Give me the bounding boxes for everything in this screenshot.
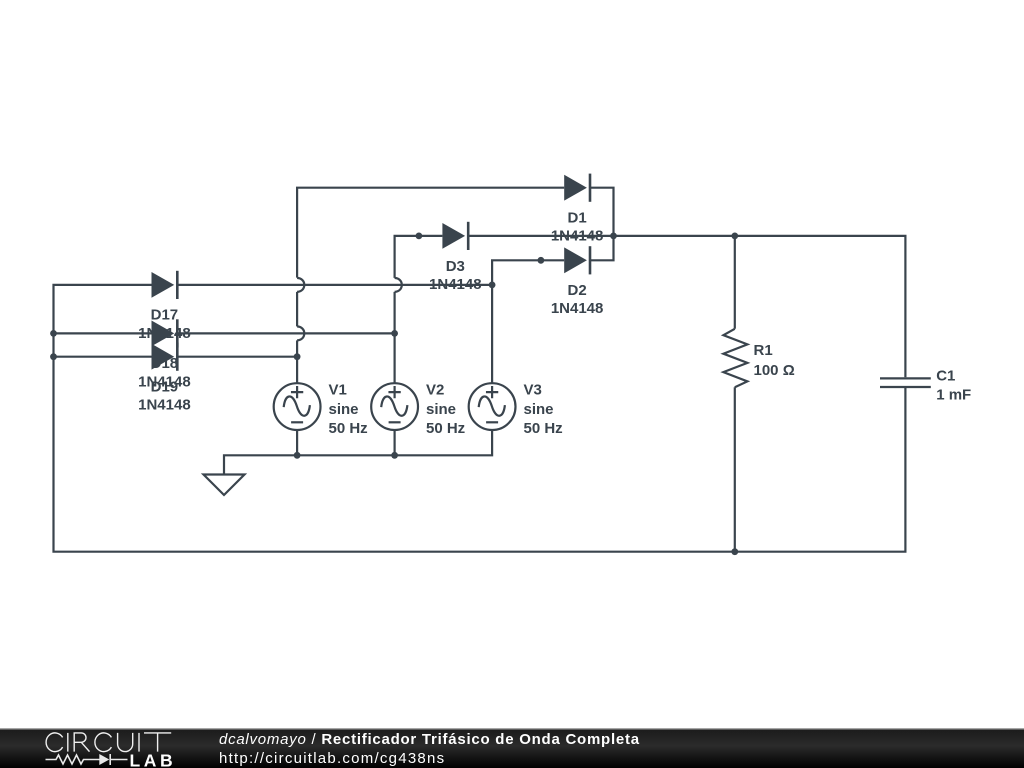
capacitor C1 xyxy=(880,378,931,387)
wire: D1 cathode to output node corner xyxy=(590,188,614,236)
svg-text:50 Hz: 50 Hz xyxy=(329,420,368,437)
logo letter U xyxy=(118,733,133,752)
wire: hop of V2 riser over wire1 xyxy=(395,278,402,292)
logo letter I xyxy=(67,733,69,752)
wire: V1 riser top + top wire to D1 anode xyxy=(297,188,564,278)
svg-text:sine: sine xyxy=(524,401,554,418)
svg-text:D19: D19 xyxy=(151,378,179,395)
svg-text:V2: V2 xyxy=(426,381,444,398)
wire: V1 riser lower segment to V1 top xyxy=(296,340,298,383)
svg-text:1 mF: 1 mF xyxy=(936,387,971,404)
diode D18 xyxy=(152,319,178,347)
wire: hop of V1 riser over wire1 xyxy=(297,278,304,292)
CircuitLab logo xyxy=(0,728,200,768)
wire: wire3 left bus to D19 anode xyxy=(54,356,152,358)
svg-text:1N4148: 1N4148 xyxy=(429,276,482,293)
wire: V2 riser lower segment to V2 top xyxy=(394,292,396,384)
source V3 xyxy=(469,383,516,430)
wire: wire1 from D17 cathode to V3 riser xyxy=(177,284,492,286)
svg-text:1N4148: 1N4148 xyxy=(138,397,191,414)
logo letter R xyxy=(74,733,89,752)
svg-text:1N4148: 1N4148 xyxy=(138,325,191,342)
wire: R1 top lead xyxy=(734,236,736,329)
wire: ground rail from ground stem to V3 bottom xyxy=(224,430,492,475)
svg-text:C1: C1 xyxy=(936,368,955,385)
diode D1 xyxy=(564,174,590,202)
wire: V1 bottom stub xyxy=(296,430,298,456)
node: D3 anode wire xyxy=(416,233,423,240)
wire: main output rail from D3 cathode to C1 top lead xyxy=(468,236,905,377)
svg-text:D1: D1 xyxy=(568,210,587,227)
wire: V3 riser corner to D2 anode xyxy=(492,260,564,383)
svg-text:D3: D3 xyxy=(446,258,465,275)
logo wire to LAB xyxy=(111,759,128,761)
footer text line 1 xyxy=(219,731,640,748)
wire: V1 riser between hops xyxy=(296,292,298,327)
node: rectifier output xyxy=(610,233,617,240)
svg-text:D18: D18 xyxy=(151,355,179,372)
wire: wire1 to left bus, down, bottom rail, C1 bottom lead xyxy=(54,285,906,552)
resistor R1 xyxy=(723,329,747,388)
node: R1 top xyxy=(731,233,738,240)
svg-text:1N4148: 1N4148 xyxy=(551,228,604,245)
ground xyxy=(204,475,245,496)
svg-text:100 Ω: 100 Ω xyxy=(754,362,795,379)
logo resistor-wire glyph xyxy=(46,755,100,764)
svg-text:V1: V1 xyxy=(329,381,347,398)
node: D2 anode wire xyxy=(538,257,545,264)
node: V3 riser / wire1 xyxy=(489,282,496,289)
logo letter C xyxy=(95,733,112,752)
diode D3 xyxy=(442,222,468,250)
node: V1 bottom / ground rail xyxy=(294,452,301,459)
node: V1 riser / wire3 xyxy=(294,353,301,360)
wire: R1 bottom lead xyxy=(734,387,736,551)
logo diode cathode bar xyxy=(109,754,111,765)
svg-text:V3: V3 xyxy=(524,381,542,398)
node: left bus / wire3 xyxy=(50,353,57,360)
svg-text:1N4148: 1N4148 xyxy=(551,300,604,317)
logo letter I xyxy=(138,733,140,752)
source V1 xyxy=(274,383,321,430)
node: V2 riser / wire2 xyxy=(391,330,398,337)
wire: V2 riser top corner to D3 anode xyxy=(395,236,443,278)
svg-text:50 Hz: 50 Hz xyxy=(524,420,563,437)
svg-text:LAB: LAB xyxy=(130,751,177,768)
diode D19 xyxy=(152,343,178,371)
svg-text:sine: sine xyxy=(329,401,359,418)
svg-text:50 Hz: 50 Hz xyxy=(426,420,465,437)
node: V2 bottom / ground rail xyxy=(391,452,398,459)
wire: V2 bottom stub xyxy=(394,430,396,456)
logo letter C xyxy=(46,733,63,752)
wire: hop of V1 riser over wire2 xyxy=(297,326,304,340)
node: left bus / wire2 xyxy=(50,330,57,337)
wire: wire2 left bus to D18 anode xyxy=(54,332,152,334)
diode D2 xyxy=(564,246,590,274)
wire: wire2 from D18 cathode to V2 riser xyxy=(177,332,394,334)
wire: wire3 from D19 cathode to V1 riser xyxy=(177,356,297,358)
node: R1 bottom / bottom rail xyxy=(731,548,738,555)
source V2 xyxy=(371,383,418,430)
svg-text:R1: R1 xyxy=(754,342,773,359)
wire: D2 cathode to output node corner xyxy=(590,236,614,260)
footer text line 2 xyxy=(219,750,445,767)
footer bar xyxy=(0,728,1024,768)
svg-text:D2: D2 xyxy=(568,282,587,299)
logo letter T xyxy=(144,733,171,752)
diode D17 xyxy=(152,271,178,299)
svg-text:D17: D17 xyxy=(151,307,179,324)
svg-text:sine: sine xyxy=(426,401,456,418)
logo diode triangle xyxy=(99,754,109,765)
